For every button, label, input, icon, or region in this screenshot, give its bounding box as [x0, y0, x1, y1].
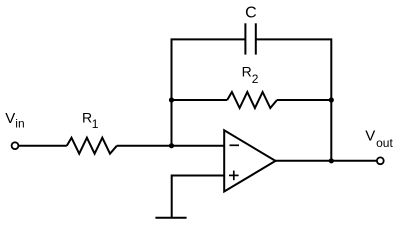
svg-text:C: C — [245, 4, 257, 21]
op-amp minus symbol — [230, 144, 240, 146]
wire left feedback vertical and top-left corner — [172, 39, 246, 145]
wire R1 to op-amp inverting input — [117, 145, 224, 147]
svg-text:2: 2 — [252, 72, 259, 86]
wire R2 to right vertical — [277, 99, 331, 101]
label Vout — [365, 128, 393, 150]
wire op-amp noninverting input — [172, 176, 225, 218]
resistor R2 — [227, 92, 277, 108]
svg-text:V: V — [365, 128, 375, 145]
node B junction dot left of R2 — [169, 97, 174, 102]
resistor R1 — [67, 138, 117, 154]
wire input to R1 — [19, 145, 67, 147]
node D junction dot at output — [329, 158, 334, 163]
label Vin — [5, 110, 24, 131]
wire capacitor to top right corner and right feedback vertical — [256, 39, 331, 160]
op-amp plus symbol — [229, 171, 239, 181]
wire left to R2 — [172, 99, 228, 101]
node Vin terminal circle — [12, 142, 19, 149]
ground — [155, 217, 186, 219]
label R1 — [82, 109, 99, 131]
svg-text:out: out — [376, 136, 393, 150]
node A junction dot at inverting input — [169, 143, 174, 148]
svg-text:1: 1 — [92, 117, 99, 131]
op-amp U1 triangle — [224, 130, 275, 191]
capacitor C — [245, 23, 255, 54]
wire op-amp output — [276, 160, 377, 162]
svg-text:R: R — [242, 64, 252, 80]
node Vout terminal circle — [377, 157, 384, 164]
svg-text:V: V — [5, 110, 15, 127]
svg-text:in: in — [15, 117, 24, 131]
svg-text:R: R — [82, 109, 92, 125]
node C junction dot right of R2 — [329, 97, 334, 102]
label R2 — [242, 64, 259, 87]
